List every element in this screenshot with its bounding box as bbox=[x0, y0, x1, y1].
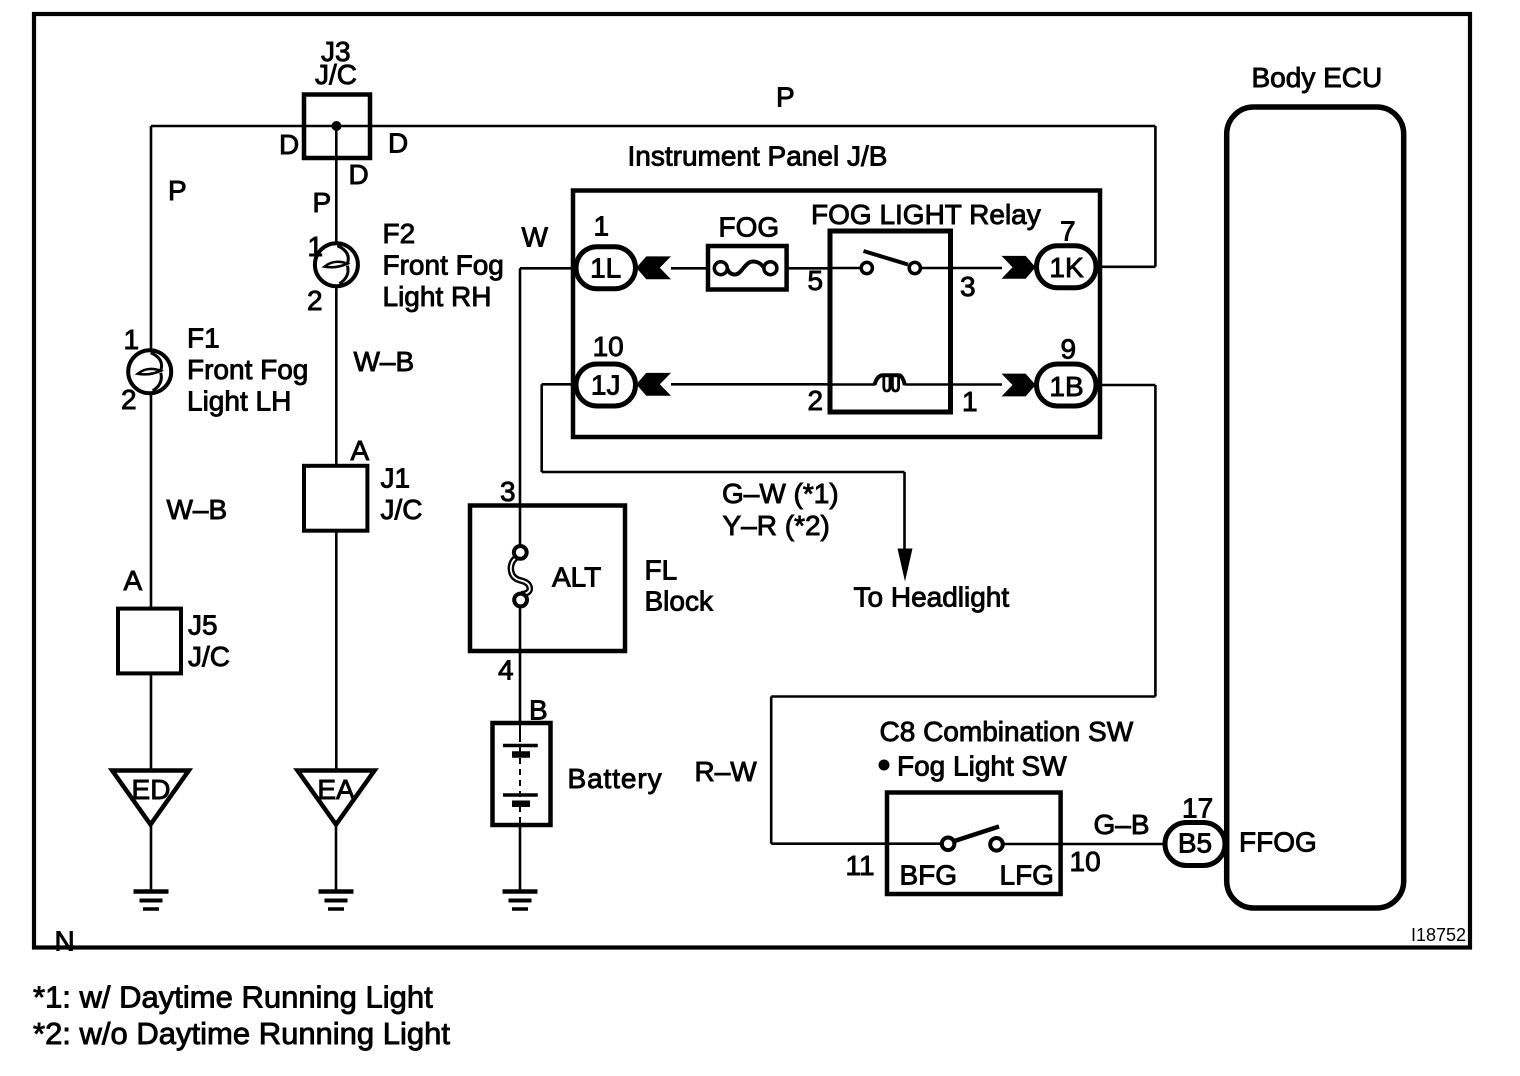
svg-text:11: 11 bbox=[846, 850, 875, 881]
svg-text:W: W bbox=[522, 222, 549, 253]
svg-text:1J: 1J bbox=[591, 370, 621, 401]
svg-text:ED: ED bbox=[132, 774, 171, 805]
svg-text:Fog Light SW: Fog Light SW bbox=[897, 751, 1067, 782]
svg-text:FOG LIGHT Relay: FOG LIGHT Relay bbox=[811, 199, 1041, 230]
svg-text:7: 7 bbox=[1060, 216, 1076, 247]
svg-text:P: P bbox=[168, 175, 187, 206]
svg-text:J1: J1 bbox=[381, 463, 411, 494]
svg-text:D: D bbox=[388, 128, 408, 159]
svg-text:W–B: W–B bbox=[354, 346, 415, 377]
svg-text:W–B: W–B bbox=[167, 494, 228, 525]
svg-text:Body ECU: Body ECU bbox=[1252, 62, 1383, 93]
svg-text:BFG: BFG bbox=[900, 860, 958, 891]
svg-text:3: 3 bbox=[500, 476, 516, 507]
svg-text:Front Fog: Front Fog bbox=[383, 250, 504, 281]
svg-text:3: 3 bbox=[960, 271, 976, 302]
svg-text:17: 17 bbox=[1182, 793, 1213, 824]
svg-text:1: 1 bbox=[124, 324, 140, 355]
svg-text:To Headlight: To Headlight bbox=[854, 582, 1010, 613]
svg-text:2: 2 bbox=[307, 285, 323, 316]
svg-text:5: 5 bbox=[808, 265, 824, 296]
svg-text:1L: 1L bbox=[590, 253, 621, 284]
svg-text:Front Fog: Front Fog bbox=[187, 354, 308, 385]
svg-text:P: P bbox=[776, 82, 795, 113]
svg-text:A: A bbox=[351, 435, 370, 466]
svg-text:FOG: FOG bbox=[719, 212, 780, 243]
svg-text:A: A bbox=[124, 565, 143, 596]
svg-text:P: P bbox=[313, 187, 332, 218]
svg-text:J/C: J/C bbox=[381, 494, 423, 525]
svg-text:N: N bbox=[55, 926, 75, 957]
svg-text:4: 4 bbox=[498, 655, 514, 686]
svg-text:D: D bbox=[349, 159, 369, 190]
svg-text:J/C: J/C bbox=[315, 59, 357, 90]
svg-text:G–B: G–B bbox=[1094, 809, 1150, 840]
svg-text:Block: Block bbox=[645, 586, 714, 617]
svg-text:B: B bbox=[529, 695, 548, 726]
svg-text:1B: 1B bbox=[1049, 371, 1083, 402]
svg-text:LFG: LFG bbox=[1000, 860, 1054, 891]
svg-text:B5: B5 bbox=[1178, 828, 1212, 859]
svg-text:D: D bbox=[279, 129, 299, 160]
svg-text:F2: F2 bbox=[383, 218, 416, 249]
svg-text:FFOG: FFOG bbox=[1239, 827, 1317, 858]
svg-text:*1: w/ Daytime Running Light: *1: w/ Daytime Running Light bbox=[33, 980, 433, 1015]
svg-text:10: 10 bbox=[1070, 846, 1101, 877]
svg-text:9: 9 bbox=[1061, 334, 1077, 365]
svg-text:2: 2 bbox=[121, 384, 137, 415]
svg-text:10: 10 bbox=[593, 331, 624, 362]
svg-text:J5: J5 bbox=[188, 610, 218, 641]
svg-text:Instrument Panel J/B: Instrument Panel J/B bbox=[628, 141, 888, 172]
svg-text:G–W (*1): G–W (*1) bbox=[722, 478, 839, 509]
svg-text:*2: w/o Daytime Running Light: *2: w/o Daytime Running Light bbox=[33, 1016, 450, 1051]
svg-text:1: 1 bbox=[594, 211, 610, 242]
svg-text:Y–R (*2): Y–R (*2) bbox=[723, 510, 830, 541]
svg-text:I18752: I18752 bbox=[1411, 925, 1466, 945]
svg-text:2: 2 bbox=[808, 385, 824, 416]
svg-text:Light RH: Light RH bbox=[383, 281, 492, 312]
svg-text:EA: EA bbox=[317, 774, 355, 805]
svg-text:R–W: R–W bbox=[695, 756, 758, 787]
svg-text:ALT: ALT bbox=[552, 562, 601, 593]
svg-text:1: 1 bbox=[308, 231, 324, 262]
svg-text:C8 Combination SW: C8 Combination SW bbox=[880, 716, 1134, 747]
svg-text:Light LH: Light LH bbox=[187, 386, 291, 417]
svg-text:J/C: J/C bbox=[188, 641, 230, 672]
svg-text:1K: 1K bbox=[1049, 252, 1084, 283]
svg-text:Battery: Battery bbox=[568, 763, 663, 794]
svg-text:1: 1 bbox=[962, 386, 978, 417]
svg-text:FL: FL bbox=[645, 555, 678, 586]
svg-text:F1: F1 bbox=[187, 323, 220, 354]
